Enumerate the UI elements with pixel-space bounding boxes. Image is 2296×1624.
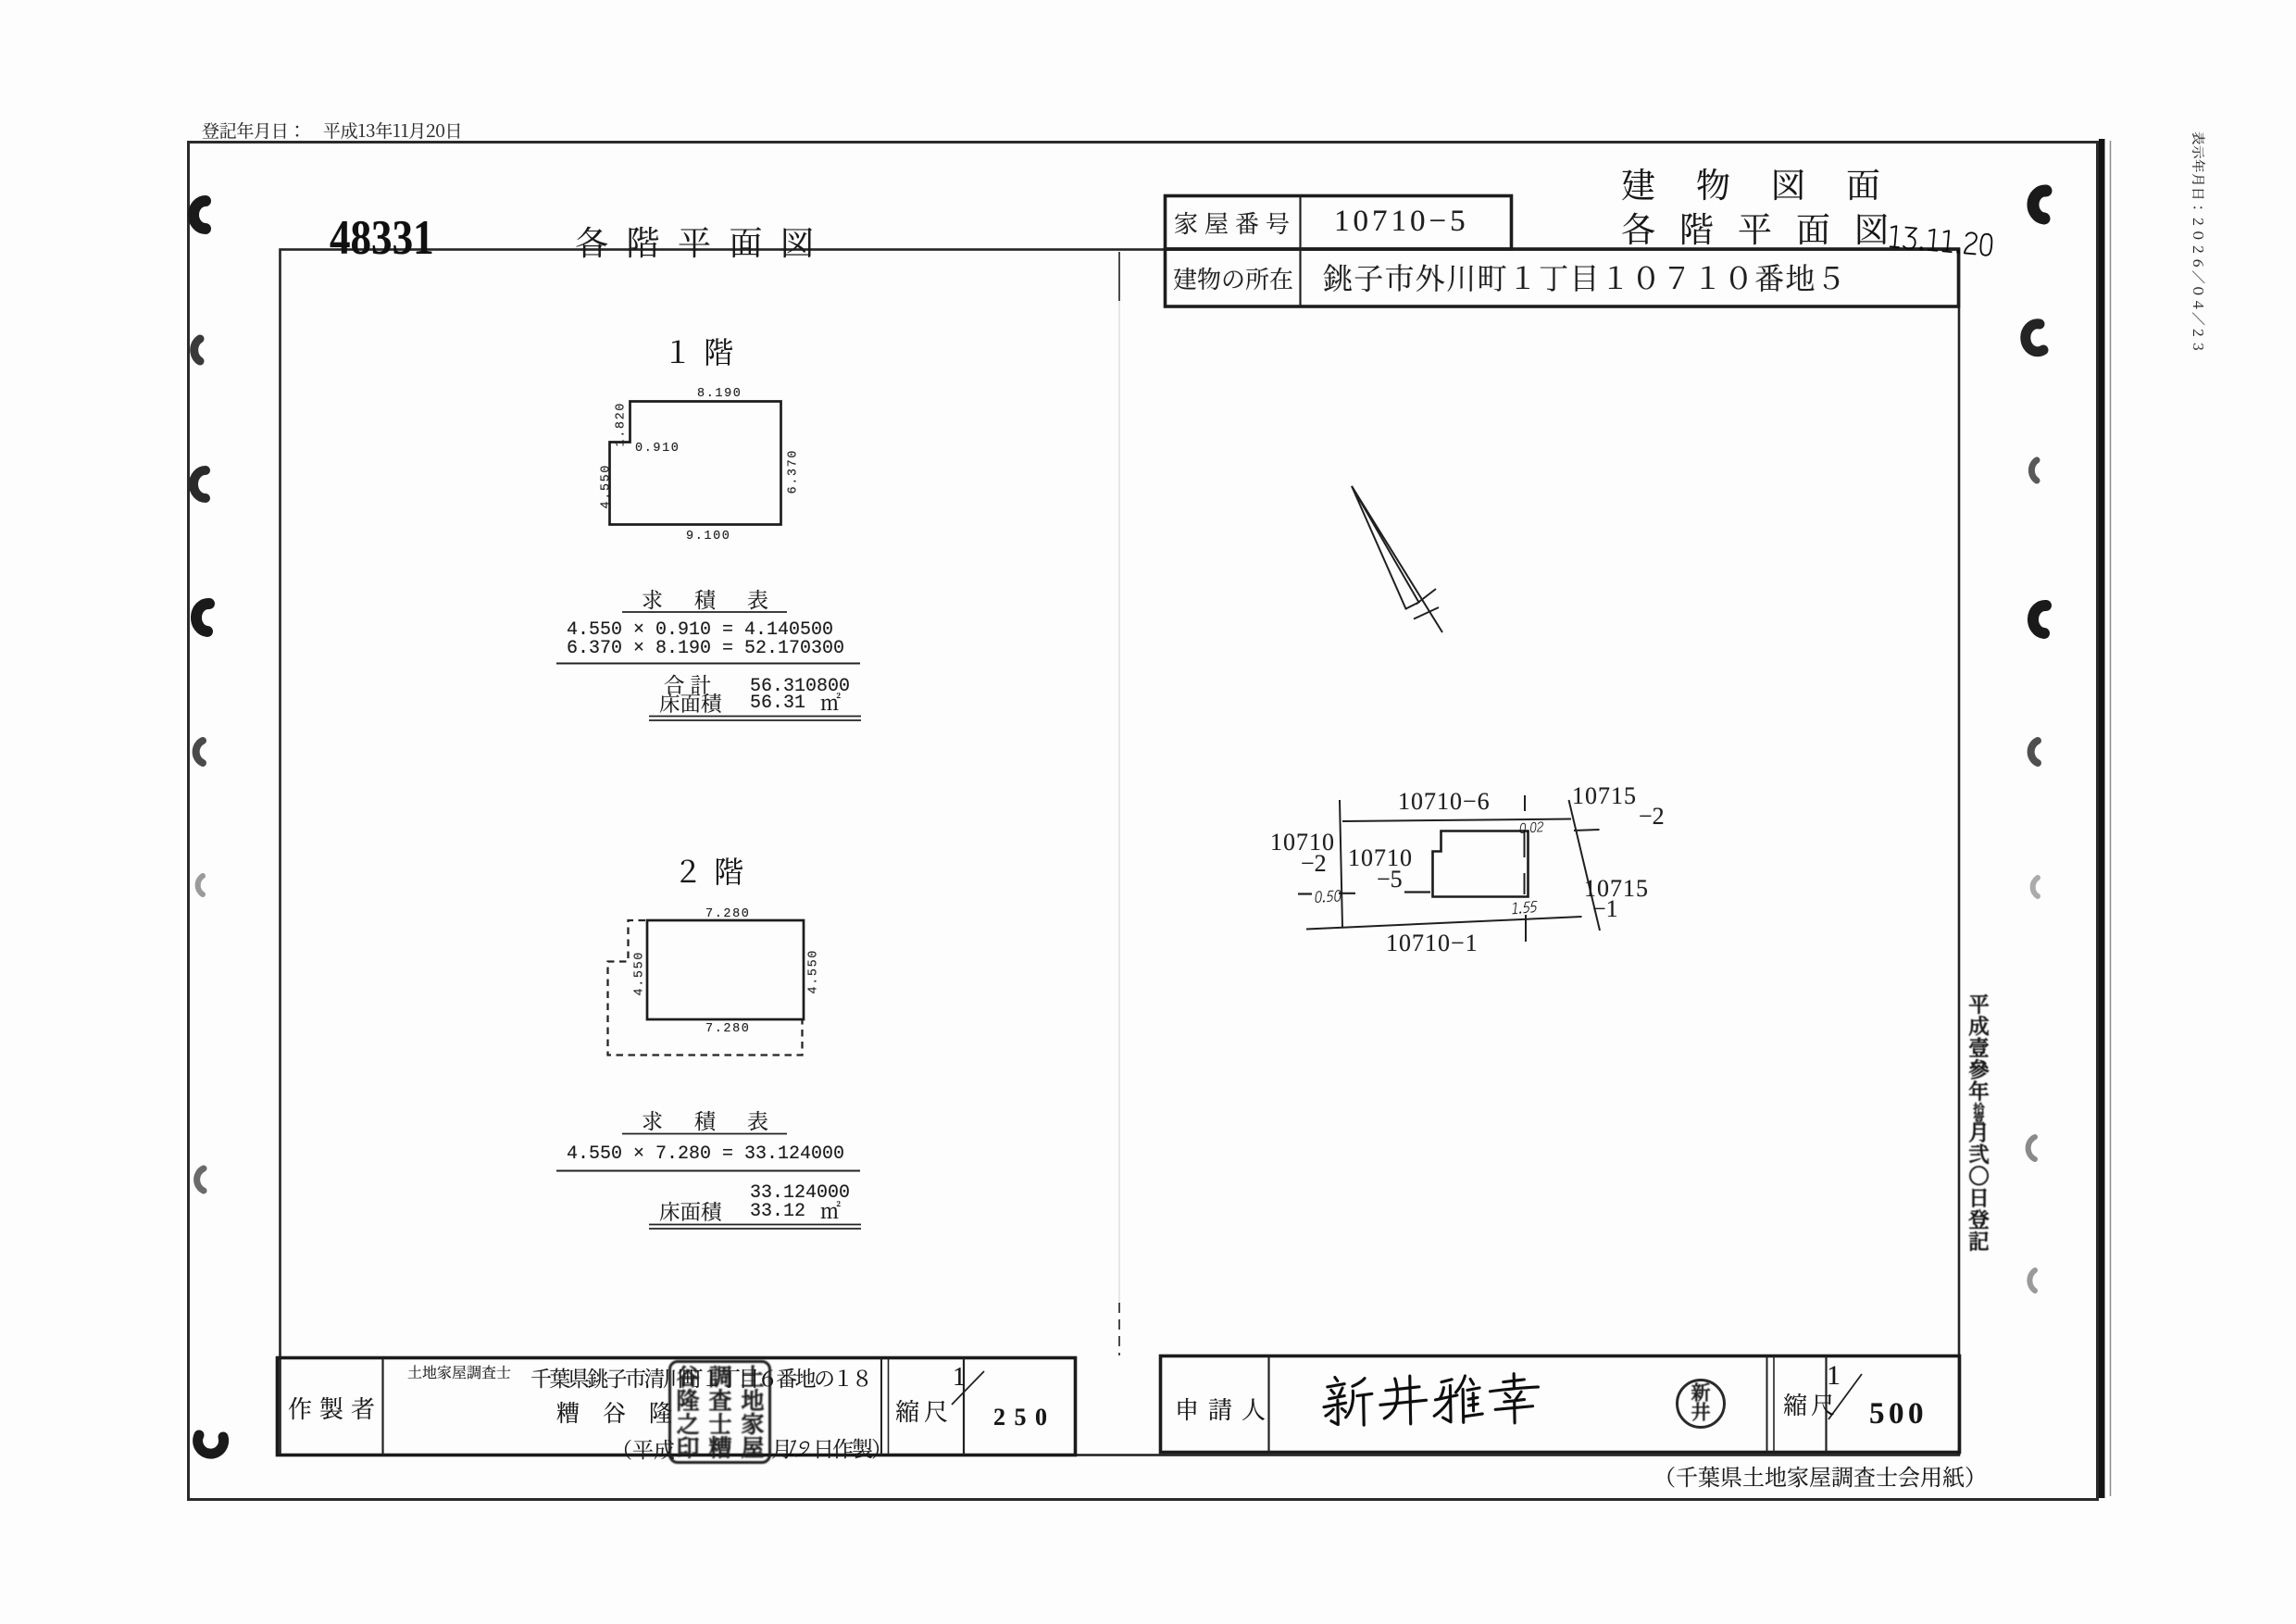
- house number table box row2: [1166, 249, 1959, 306]
- site label -5 parcel: [1377, 868, 1403, 892]
- scale denominator 250: [993, 1405, 1056, 1430]
- site plan division tick line: [1525, 795, 1527, 942]
- 2F floor plan outline: [647, 920, 804, 1019]
- 1F equation line1: [567, 621, 833, 640]
- site plan building outline: [1433, 831, 1529, 897]
- binder holes left column: [193, 201, 224, 1454]
- scale denominator 500: [1869, 1399, 1928, 1430]
- site label 10710-6: [1398, 790, 1491, 814]
- surveyor name 糟谷隆: [556, 1401, 672, 1424]
- site label 10710 parcel: [1348, 846, 1413, 870]
- 2F area table double rule: [649, 1225, 861, 1230]
- site dim 0.02: [1518, 819, 1544, 835]
- site plan boundary tick 10715-2: [1574, 830, 1600, 831]
- 1F floor plan outline: [610, 402, 781, 525]
- handwritten 19: [783, 1435, 814, 1459]
- value 10710-5: [1334, 206, 1469, 237]
- bottom right table dividers: [1269, 1356, 1827, 1453]
- site dim 0.50: [1314, 886, 1342, 904]
- 2F dashed 1F footprint: [608, 920, 803, 1056]
- 2F sum value: [750, 1184, 850, 1203]
- surveyor square seal: [668, 1360, 771, 1464]
- 2F area table sum rule: [556, 1170, 860, 1172]
- 1F dim 8.190: [697, 388, 742, 401]
- scale numerator 1 left: [953, 1365, 966, 1391]
- paper note 千葉県土地家屋調査士会用紙: [1653, 1465, 1987, 1487]
- 2F dim 7.280 top: [705, 908, 751, 921]
- 2F label 床面積: [659, 1201, 722, 1222]
- vertical scan date 表示年月日: [2191, 131, 2205, 354]
- bottom label 縮尺 left: [895, 1399, 953, 1423]
- 1F dim 9.100: [686, 531, 731, 543]
- 1F label 合計: [664, 674, 717, 695]
- 1F sum value: [750, 678, 850, 696]
- binder holes right column: [2026, 191, 2046, 1291]
- bottom label 縮尺 right: [1783, 1393, 1839, 1417]
- 2F floor area value: [750, 1203, 805, 1221]
- 2F dim 4.550 left: [634, 951, 647, 996]
- sheet title 各階平面図: [575, 225, 832, 258]
- handwritten date 13.11.20: [1887, 219, 1996, 259]
- applicant round seal ring: [1678, 1380, 1725, 1428]
- site label 10715 right: [1584, 877, 1649, 901]
- vertical registration stamp 平成壹參年…登記: [1968, 993, 1990, 1253]
- stamp number 48331: [330, 214, 434, 263]
- site plan bottom lot boundary: [1306, 917, 1582, 930]
- registration date top left: [202, 121, 462, 139]
- label 建物の所在: [1173, 267, 1293, 291]
- site dim 1.55: [1511, 897, 1539, 916]
- 1F floor area value: [750, 694, 805, 713]
- form fold line: [1118, 252, 1120, 1355]
- 1F area table title 求積表: [642, 588, 800, 609]
- 2F area table title 求積表: [642, 1109, 800, 1131]
- 1F area table underline: [622, 611, 787, 613]
- made date 月: [771, 1437, 792, 1458]
- made date 日作製）: [813, 1437, 891, 1458]
- site label 10710 left: [1270, 831, 1335, 855]
- made date paren left: [611, 1438, 675, 1459]
- site label 10715 top: [1572, 784, 1637, 808]
- surveyor address: [530, 1367, 870, 1388]
- scale numerator 1 right: [1827, 1362, 1841, 1390]
- site plan top lot boundary: [1342, 819, 1571, 822]
- north arrow: [1352, 486, 1442, 632]
- site plan right lot boundary: [1569, 800, 1601, 931]
- outer scan border: [189, 143, 2098, 1500]
- 1F dim 6.370: [788, 449, 801, 494]
- bottom left table dividers: [383, 1358, 965, 1455]
- site label -1 right: [1592, 897, 1618, 921]
- 2F unit ㎡: [820, 1201, 841, 1221]
- bottom label 土地家屋調査士: [407, 1365, 511, 1380]
- site plan left lot boundary: [1340, 800, 1342, 927]
- 1F area table sum rule: [556, 663, 860, 665]
- doc title 各階平面図: [1621, 210, 1913, 244]
- 2F dim 4.550 right: [808, 949, 821, 994]
- 1F dim 4.550: [601, 464, 614, 509]
- label 家屋番号: [1174, 211, 1296, 235]
- doc title 建物図面: [1621, 166, 1921, 200]
- label 2階: [673, 856, 745, 885]
- label 1階: [663, 336, 735, 366]
- 1F dim 0.910: [635, 443, 680, 456]
- 1F area table double rule: [649, 717, 861, 721]
- 1F unit ㎡: [820, 693, 841, 713]
- bottom label 申請人: [1175, 1397, 1275, 1421]
- house number table divider: [1299, 196, 1301, 307]
- 2F dim 7.280 bottom: [705, 1023, 751, 1036]
- bottom right table (申請人) frame: [1161, 1356, 1960, 1453]
- 2F area table underline: [622, 1133, 787, 1135]
- 1F label 床面積: [659, 693, 722, 714]
- 2F equation: [567, 1145, 844, 1164]
- site plan 0.50 dimension line: [1298, 893, 1430, 894]
- house number table box row1: [1166, 196, 1512, 250]
- inner drawing frame: [281, 250, 1960, 1455]
- bottom left table scale slash: [952, 1371, 984, 1405]
- value 銚子市外川町…: [1323, 262, 1847, 292]
- applicant signature 新井雅幸: [1320, 1368, 1543, 1426]
- bottom right table scale slash: [1828, 1374, 1862, 1419]
- site label -2 top: [1639, 805, 1665, 829]
- applicant seal text 新井: [1691, 1382, 1710, 1421]
- bottom left table (作製者) frame: [278, 1358, 1076, 1455]
- site label 10710-1 bottom: [1386, 931, 1479, 956]
- 1F dim 1.820: [616, 402, 629, 447]
- page right edge thick line: [2099, 139, 2111, 1498]
- 1F equation line2: [567, 640, 844, 658]
- site label -2 left: [1301, 852, 1327, 876]
- bottom label 作製者: [288, 1396, 382, 1420]
